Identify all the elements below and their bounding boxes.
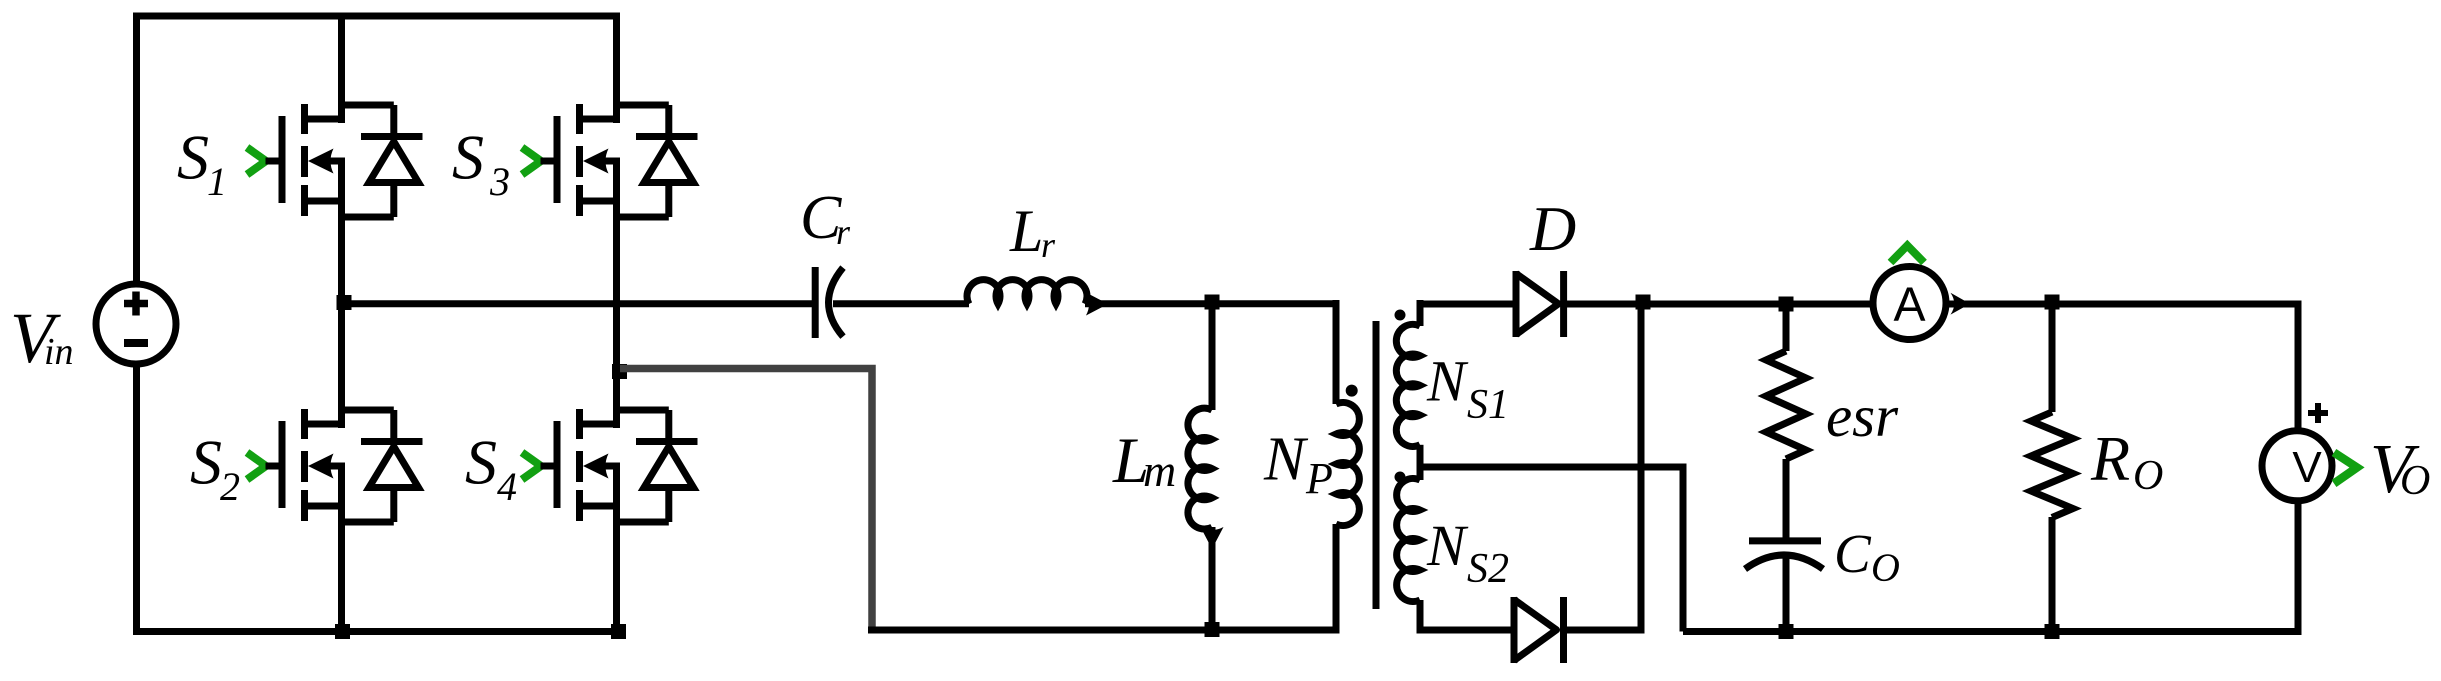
label NS1: [1426, 349, 1509, 429]
label Co: [1834, 523, 1900, 590]
svg-text:N: N: [1426, 513, 1469, 578]
inductor Lr: [967, 280, 1087, 304]
svg-text:4: 4: [497, 464, 517, 509]
node Ro top: [2045, 295, 2060, 310]
svg-text:r: r: [836, 212, 851, 252]
transistor S2: [247, 409, 423, 522]
svg-text:S2: S2: [1467, 546, 1509, 592]
svg-text:O: O: [1871, 545, 1900, 590]
arrow Lr current: [1086, 293, 1108, 316]
svg-text:P: P: [1305, 454, 1333, 503]
resistor Ro: [2031, 304, 2073, 632]
source Vin: [96, 284, 176, 364]
transformer core: [1373, 321, 1380, 609]
label Np: [1263, 426, 1333, 504]
node esr top: [1779, 297, 1794, 312]
wire primary bottom: [868, 627, 1340, 634]
label Lm: [1112, 425, 1176, 497]
transistor S1: [247, 104, 423, 217]
node rectifier out: [1636, 295, 1651, 310]
node Lm bottom: [1205, 622, 1220, 637]
wire D to top rail and meters: [1564, 301, 2302, 308]
node A: [337, 295, 352, 310]
svg-text:C: C: [1834, 523, 1872, 584]
label Vin: [10, 298, 74, 378]
wire Lr arrow to Np top: [1085, 300, 1340, 307]
label NS2: [1426, 513, 1509, 592]
inductor Lm: [1188, 304, 1212, 633]
wire left bridge leg: [338, 13, 345, 124]
svg-text:esr: esr: [1826, 383, 1899, 449]
node bottom right leg: [611, 624, 626, 639]
resistor esr: [1766, 304, 1806, 538]
label S3: [452, 122, 510, 205]
wire right output branch: [2295, 304, 2302, 632]
plus voltmeter: [2308, 403, 2328, 423]
arrow ammeter out: [1951, 293, 1971, 315]
wire rectifier join vertical: [1638, 304, 1645, 630]
label Vo: [2370, 431, 2430, 508]
diode bottom: [1514, 597, 1564, 663]
capacitor Cr: [815, 267, 843, 338]
dot primary: [1346, 385, 1358, 397]
node bottom left leg: [335, 624, 350, 639]
svg-text:S: S: [177, 122, 209, 193]
wire NS1 top to diode D: [1417, 301, 1515, 308]
dot NS2: [1395, 472, 1406, 483]
wire mid rail node A to Cr: [342, 300, 813, 307]
node Ro bottom: [2045, 624, 2060, 639]
wire right bridge leg: [613, 13, 620, 124]
wire top rail: [133, 13, 620, 20]
svg-text:r: r: [1041, 225, 1056, 265]
svg-text:2: 2: [220, 464, 240, 509]
node Lm top: [1205, 295, 1220, 310]
arrow green meter V: [2334, 453, 2357, 484]
svg-text:S1: S1: [1467, 382, 1509, 428]
svg-text:in: in: [44, 331, 74, 373]
svg-text:R: R: [2090, 423, 2130, 494]
label Lr: [1009, 198, 1056, 265]
capacitor Co: [1745, 541, 1823, 633]
svg-text:V: V: [2292, 443, 2322, 492]
label Cr: [800, 184, 851, 252]
wire center tap: [1420, 467, 1683, 632]
svg-text:A: A: [1893, 279, 1925, 332]
svg-text:S: S: [452, 122, 484, 193]
ammeter A: [1873, 267, 1946, 340]
node esr bottom: [1779, 624, 1794, 639]
winding Np: [1336, 300, 1359, 633]
svg-text:N: N: [1263, 426, 1309, 494]
voltmeter V: [2262, 431, 2332, 501]
svg-text:O: O: [2133, 453, 2163, 499]
transistor S3: [522, 104, 698, 217]
wire Cr to Lr: [833, 300, 969, 307]
label S4: [465, 427, 517, 510]
dot NS1: [1395, 310, 1406, 321]
wire NS2 bottom to diode: [1417, 627, 1513, 634]
arrow Lm current: [1201, 527, 1224, 549]
svg-text:m: m: [1143, 445, 1176, 496]
transistor S4: [522, 409, 698, 522]
arrow green meter A: [1891, 246, 1925, 263]
node B: [612, 364, 627, 379]
svg-text:S: S: [465, 427, 497, 498]
label S2: [190, 427, 240, 510]
wire left vertical with Vin: [133, 13, 140, 636]
svg-text:D: D: [1529, 193, 1576, 264]
svg-text:S: S: [190, 427, 222, 498]
label Ro: [2090, 423, 2163, 499]
label S1: [177, 122, 227, 205]
svg-text:1: 1: [207, 159, 227, 204]
svg-text:N: N: [1426, 349, 1469, 414]
svg-text:L: L: [1009, 198, 1043, 264]
wire bottom diode to join vertical: [1564, 627, 1645, 634]
diode D: [1516, 271, 1564, 337]
svg-text:O: O: [2400, 458, 2430, 504]
svg-text:3: 3: [489, 159, 510, 204]
wire bottom rail right: [1683, 628, 2302, 635]
wire bottom rail bridge: [133, 628, 620, 635]
wire gray node B to primary bottom: [620, 369, 872, 629]
winding NS2: [1397, 467, 1420, 634]
winding NS1: [1396, 300, 1420, 471]
